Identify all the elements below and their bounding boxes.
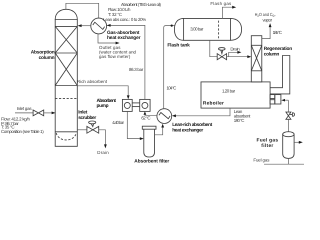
absorbent filter bbox=[142, 126, 156, 157]
lean absorbent feed line from pump2 to heat exchanger bbox=[107, 25, 145, 99]
svg-text:Drain: Drain bbox=[97, 150, 109, 155]
flash tank bottom pipe to level valve bbox=[210, 40, 217, 56]
svg-text:pump: pump bbox=[97, 104, 109, 109]
inlet gas pipe bbox=[15, 112, 33, 114]
absorption column internal dashed level line bbox=[55, 98, 77, 100]
level control valve bowtie bbox=[217, 48, 226, 60]
svg-text:3.00 bar: 3.00 bar bbox=[190, 26, 204, 31]
svg-text:104 °C: 104 °C bbox=[167, 85, 177, 90]
svg-text:Lean-rich absorbent: Lean-rich absorbent bbox=[172, 122, 212, 128]
svg-text:heat exchanger: heat exchanger bbox=[107, 35, 141, 41]
fuel gas riser and valve bbox=[287, 100, 289, 112]
svg-text:Reboiler: Reboiler bbox=[203, 101, 224, 107]
drain pipe down with arrow bbox=[99, 130, 106, 146]
svg-text:Absorbent filter: Absorbent filter bbox=[134, 159, 169, 165]
svg-text:vapor: vapor bbox=[263, 17, 273, 22]
pump1 outlet pipe to absorbent filter bbox=[127, 111, 141, 138]
valve outlet pipe to regeneration column with arrow bbox=[227, 56, 249, 58]
svg-text:4.40 bar: 4.40 bar bbox=[112, 120, 124, 125]
svg-text:Drain: Drain bbox=[230, 46, 240, 51]
absorption column dashed bottom arc bbox=[56, 133, 76, 140]
svg-text:Inlet: Inlet bbox=[78, 109, 88, 115]
fuel gas valve bbox=[286, 112, 295, 119]
hx left pipe to pump2 suction bbox=[145, 113, 157, 116]
svg-text:Flash gas: Flash gas bbox=[210, 1, 232, 6]
lean-rich absorbent heat exchanger circle bbox=[157, 109, 172, 124]
fuel gas supply line bbox=[264, 163, 304, 165]
fuel gas filter vessel bbox=[283, 132, 294, 159]
absorption column packing X upper bbox=[55, 26, 77, 53]
fuel gas pipe into burner with arrow bbox=[285, 99, 288, 101]
regen overhead vapor pipe with arrow bbox=[262, 27, 270, 39]
filter outlet pipe to lean-rich hx bbox=[155, 126, 163, 135]
absorption column packing X lower bbox=[55, 53, 77, 86]
hx top riser to flash tank bbox=[164, 26, 175, 109]
svg-text:heat exchanger: heat exchanger bbox=[172, 128, 203, 134]
reboiler bbox=[201, 82, 270, 108]
flash tank bbox=[174, 18, 241, 40]
svg-text:Absorption: Absorption bbox=[31, 50, 55, 56]
lean absorbent line into column top bbox=[79, 25, 91, 27]
overhead gas pipe to gas-absorbent heat exchanger bbox=[66, 3, 99, 18]
valve to filter pipe bbox=[287, 119, 289, 132]
absorbent pump 1 bbox=[122, 99, 132, 111]
svg-text:column: column bbox=[39, 55, 55, 61]
svg-text:scrubber: scrubber bbox=[78, 115, 96, 121]
regeneration column bbox=[251, 36, 261, 82]
svg-text:86.3 bar: 86.3 bar bbox=[129, 67, 144, 72]
flash gas pipe with arrow bbox=[222, 7, 233, 18]
absorption column shell bbox=[55, 9, 77, 146]
junction dot bbox=[171, 25, 173, 27]
absorbent pump 2 bbox=[140, 99, 150, 111]
svg-text:column: column bbox=[264, 52, 280, 58]
outlet gas pipe with arrow bbox=[98, 34, 116, 43]
lean absorbent pipe from reboiler to lean-rich hx bbox=[175, 108, 231, 116]
reboiler exhaust stack duct bbox=[270, 56, 290, 94]
pump coupling lines bbox=[132, 102, 140, 104]
svg-text:190 °C: 190 °C bbox=[234, 118, 245, 123]
gas-absorbent heat exchanger circle bbox=[91, 18, 107, 34]
svg-text:Fuel gas: Fuel gas bbox=[253, 158, 270, 163]
svg-text:Rich absorbent: Rich absorbent bbox=[77, 79, 108, 84]
burner flange boxes bbox=[270, 95, 275, 99]
svg-text:Composition (see Table 1): Composition (see Table 1) bbox=[1, 129, 44, 134]
rich absorbent pipe to pump 1 bbox=[77, 86, 128, 97]
column drain pipe and valve bbox=[77, 129, 87, 131]
svg-text:Inlet gas: Inlet gas bbox=[17, 106, 33, 111]
flash tank internal dashed line bbox=[218, 21, 220, 39]
svg-text:Lean abs conc.: 0 to 20%: Lean abs conc.: 0 to 20% bbox=[103, 17, 146, 22]
svg-text:62 °C: 62 °C bbox=[141, 116, 150, 121]
svg-text:Flash tank: Flash tank bbox=[167, 43, 190, 49]
svg-text:Gas-absorbent: Gas-absorbent bbox=[107, 30, 140, 36]
svg-text:gas flow meter): gas flow meter) bbox=[99, 54, 131, 59]
svg-text:Regeneration: Regeneration bbox=[264, 46, 293, 52]
inlet gas valve bbox=[33, 110, 44, 116]
svg-text:filter: filter bbox=[261, 143, 273, 149]
svg-text:Fuel gas: Fuel gas bbox=[257, 137, 279, 143]
svg-text:185 °C: 185 °C bbox=[273, 30, 282, 35]
drain branch of flash bottoms bbox=[229, 52, 239, 56]
inlet gas pipe arrow into column bbox=[44, 112, 53, 114]
svg-text:1.20 bar: 1.20 bar bbox=[222, 89, 236, 94]
filter side outlet arrow bbox=[294, 141, 300, 143]
